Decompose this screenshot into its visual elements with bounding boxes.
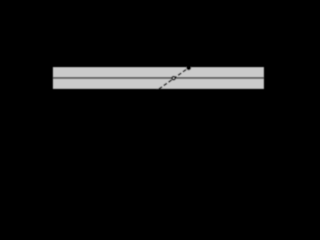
node: filled dot (particle) bbox=[186, 65, 191, 70]
node: open circle (vacancy) bbox=[172, 77, 175, 80]
wire: dashed trajectory bbox=[157, 68, 189, 91]
midline of slab bbox=[53, 77, 264, 79]
slab (membrane band) bbox=[53, 67, 264, 89]
